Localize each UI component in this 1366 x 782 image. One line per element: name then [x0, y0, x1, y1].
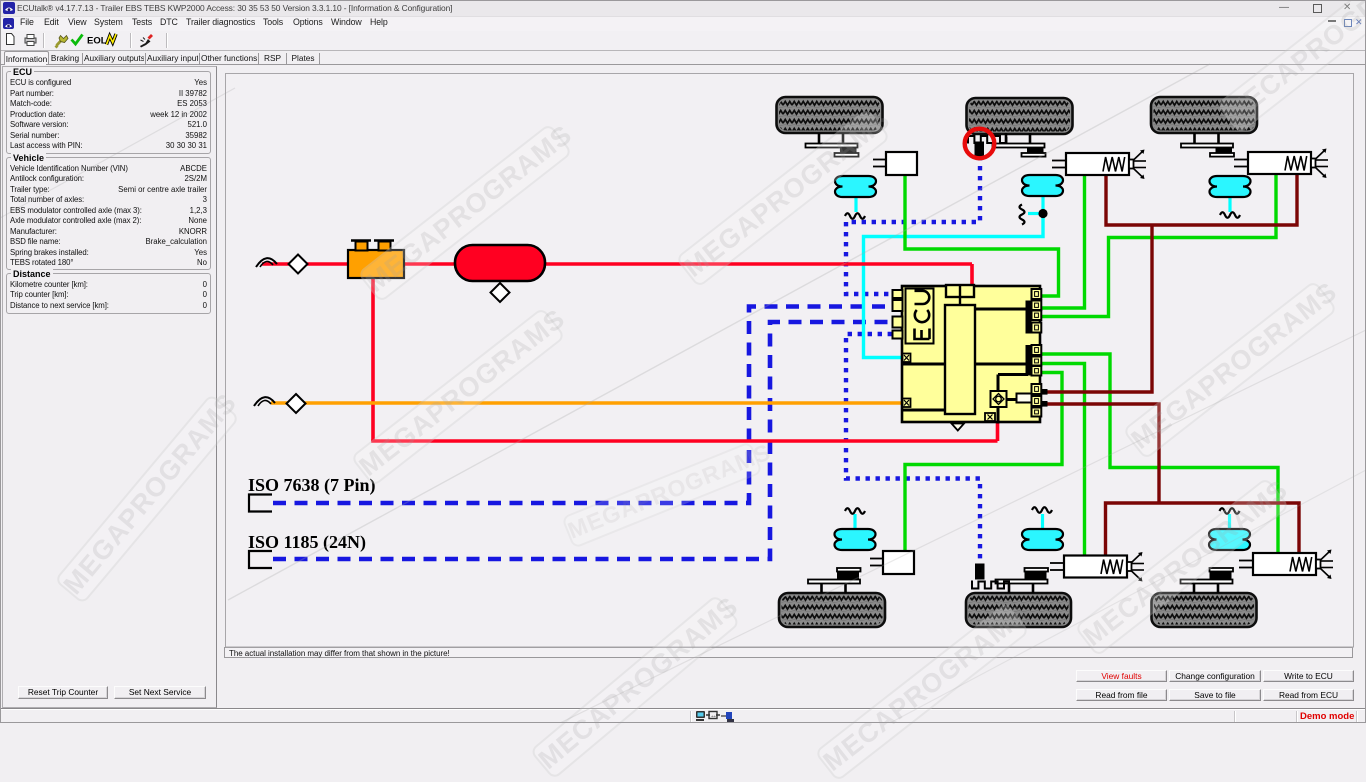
- spring brake chamber axle3 top: [1248, 152, 1311, 174]
- air bellows axle2 top: [1022, 175, 1063, 196]
- wheel axle3 top tire: [1151, 97, 1257, 133]
- axle2 top suspension: [1005, 133, 1008, 144]
- wheel axle3 bottom tire: [1152, 593, 1257, 627]
- panel buttons: [18, 686, 108, 699]
- ECU group: [6, 71, 211, 154]
- wheel axle2 top tire: [967, 98, 1073, 134]
- ABS sensor axle2 top: [975, 142, 985, 158]
- air bellows axle2 bottom: [1022, 529, 1063, 550]
- internal relay valve: [945, 305, 975, 414]
- axle2 bottom suspension: [1008, 584, 1011, 594]
- drain valve diamond: [491, 283, 510, 302]
- air bellows axle1 top: [835, 176, 876, 197]
- squiggle axle3 bottom: [1220, 508, 1240, 514]
- wire green r6 to chamber2-bottom: [1042, 364, 1085, 557]
- wire ISO1185 blue dashed line: [273, 322, 892, 559]
- brush icon: [140, 39, 151, 48]
- bottom port: [985, 413, 995, 421]
- connector symbol ISO 7638: [249, 495, 272, 512]
- top connector block: [946, 285, 974, 297]
- left low port: [903, 399, 911, 408]
- junction node levelling: [1038, 209, 1047, 218]
- wire sensor dotted top: [846, 156, 980, 294]
- axle1 bottom suspension: [820, 584, 823, 594]
- park shunt valve orange: [348, 250, 404, 278]
- coupling head orange: [254, 397, 275, 406]
- squiggle axle2 top: [1020, 205, 1025, 225]
- wrench: [57, 39, 64, 46]
- wire green chamber2-top to r2: [1042, 173, 1085, 308]
- connector symbol ISO 1185: [249, 551, 272, 568]
- internal piping: [975, 308, 1028, 311]
- spring brake chamber axle3 bottom: [1253, 553, 1316, 575]
- wire ISO7638 blue dashed line: [273, 307, 892, 504]
- bottom-right buttons: [1076, 670, 1167, 682]
- red highlight circle: [965, 129, 995, 159]
- wheel axle1 bottom tire: [779, 593, 885, 627]
- brake chamber axle1 top: [886, 152, 917, 175]
- squiggle axle2 bottom: [1032, 507, 1052, 513]
- coupling head red: [256, 258, 277, 267]
- green check: [72, 35, 83, 45]
- MDI child buttons: [1328, 20, 1336, 22]
- spring brake chamber axle2 top: [1066, 153, 1129, 175]
- ABS exciter ring axle2 bottom: [972, 581, 1009, 589]
- right ports: [1032, 289, 1042, 299]
- axle1 top suspension: [818, 133, 821, 144]
- air bellows axle1 bottom: [835, 529, 876, 550]
- squiggle axle1 bottom: [845, 508, 865, 514]
- new document icon: [7, 34, 15, 45]
- Vehicle group: [6, 157, 211, 270]
- picture frame: [226, 74, 1354, 648]
- wire orange control: [271, 401, 902, 404]
- wire red supply: [262, 262, 350, 266]
- wheel axle2 bottom tire: [966, 593, 1071, 627]
- wire cyan levelling line: [854, 195, 857, 212]
- EBS modulator main block: [902, 286, 1040, 422]
- brake chamber axle1 bottom: [883, 551, 914, 574]
- check valve diamond red: [289, 255, 308, 274]
- axle3 top suspension: [1193, 133, 1196, 144]
- wire green r5 to chamber3-bottom: [1042, 354, 1278, 554]
- ABS exciter ring axle2 top: [968, 136, 1006, 144]
- air reservoir: [455, 245, 545, 281]
- right port bracket r5-r7: [1026, 345, 1032, 376]
- wire maroon r8 to top spring chambers: [1047, 225, 1152, 392]
- watermark ribbons: [357, 123, 573, 303]
- axle3 bottom suspension: [1193, 584, 1196, 594]
- wheel axle1 top tire: [777, 97, 883, 133]
- caption strip: [224, 647, 1353, 658]
- left mid port: [903, 354, 911, 363]
- air bellows axle3 bottom: [1209, 529, 1250, 550]
- Distance group: [6, 273, 211, 314]
- squiggle axle3 top: [1220, 212, 1240, 218]
- left ports p1-p4: [893, 290, 903, 298]
- exhaust triangle: [952, 424, 965, 431]
- check valve diamond orange: [287, 394, 306, 413]
- right port bracket r2-r4: [1026, 301, 1032, 334]
- ABS sensor axle2 bottom: [975, 564, 985, 580]
- wire green r7 to chamber1-bottom: [905, 373, 1062, 553]
- internal solenoid valve: [991, 391, 1007, 407]
- squiggle axle1 top: [845, 213, 865, 219]
- wire sensor dotted bottom: [846, 334, 980, 563]
- printer icon: [25, 38, 36, 43]
- wire green chamber3-top to r3: [1042, 173, 1276, 317]
- wire green chamber1-top to r1: [905, 173, 1059, 296]
- wire maroon r9 to bottom spring chambers: [1047, 404, 1159, 503]
- silencer: [1017, 394, 1039, 403]
- yellow zigzag: [107, 34, 117, 45]
- spring brake chamber axle2 bottom: [1064, 556, 1127, 578]
- air bellows axle3 top: [1210, 176, 1251, 197]
- ECU sub-box: [906, 289, 934, 344]
- connector stubs maroon: [1038, 389, 1048, 395]
